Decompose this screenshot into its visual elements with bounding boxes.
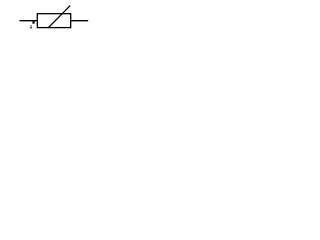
pin 1 connection square [32,21,34,23]
wire left lead [20,20,38,22]
pin number 1 label [30,25,32,28]
wire right lead [71,20,89,22]
varistor body rectangle [37,14,70,28]
varistor diagonal stroke [48,6,70,28]
